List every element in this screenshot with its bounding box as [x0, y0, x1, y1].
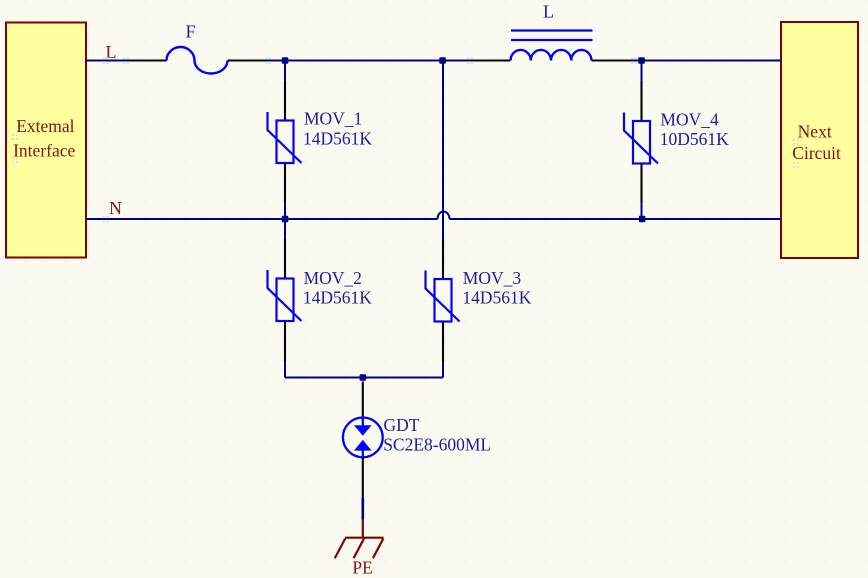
wire L rail node B to inductor pin	[443, 60, 471, 62]
junction node B	[439, 57, 446, 64]
svg-text:MOV_1: MOV_1	[304, 109, 362, 129]
wire stub MOV_4 bottom pin to N rail	[641, 203, 643, 220]
varistor MOV_3	[426, 240, 532, 362]
varistor MOV_1	[268, 81, 373, 203]
svg-text:MOV_2: MOV_2	[304, 268, 362, 288]
gas discharge tube GDT	[343, 382, 491, 498]
power port PE ground	[335, 520, 384, 578]
junction node A	[282, 57, 289, 64]
svg-text:10D561K: 10D561K	[660, 129, 729, 149]
varistor MOV_2	[268, 239, 373, 362]
fuse F	[126, 21, 268, 73]
wire bottom rail MOV_2 to MOV_3	[285, 377, 443, 379]
svg-text:L: L	[543, 1, 554, 21]
svg-text:Circuit: Circuit	[792, 143, 841, 163]
svg-text:14D561K: 14D561K	[462, 288, 531, 308]
wire MOV_3 bottom pin to bottom rail	[442, 362, 444, 378]
wire L rail node A to node B	[285, 60, 443, 62]
svg-text:MOV_3: MOV_3	[463, 268, 522, 288]
wire N rail from Extemal Interface to hop	[86, 218, 438, 220]
wire GDT bottom pin to PE port	[361, 498, 364, 520]
svg-text:MOV_4: MOV_4	[660, 109, 719, 129]
svg-text:F: F	[186, 21, 196, 41]
svg-text:L: L	[106, 42, 117, 62]
svg-text:14D561K: 14D561K	[303, 128, 372, 148]
svg-text:GDT: GDT	[384, 415, 420, 435]
wire stub MOV_1 bottom pin to N rail	[284, 203, 286, 220]
svg-text:Extemal: Extemal	[16, 116, 74, 136]
wire stub N node to MOV_2 top pin	[284, 219, 286, 239]
junction node C	[638, 57, 645, 64]
svg-text:SC2E8-600ML: SC2E8-600ML	[383, 435, 491, 455]
wire N rail hop to Next Circuit	[450, 218, 782, 220]
inductor L	[471, 1, 632, 60]
wire endpoint marks	[103, 57, 637, 222]
wire MOV_2 bottom pin to bottom rail	[284, 361, 286, 378]
wire node B down through hop to MOV_3 pin	[442, 61, 444, 240]
wire L rail from Extemal Interface to fuse pin	[86, 60, 127, 62]
wire stub node C to MOV_4 top pin	[641, 61, 643, 82]
svg-text:N: N	[109, 198, 122, 218]
sheet symbol: Next Circuit box	[781, 22, 858, 258]
wire hop over vertical at node B column	[438, 212, 450, 220]
svg-text:14D561K: 14D561K	[303, 288, 372, 308]
wire L rail fuse to node A	[268, 60, 286, 62]
svg-text:PE: PE	[352, 558, 372, 578]
sheet symbol: Extemal Interface box	[6, 23, 86, 258]
varistor MOV_4	[624, 81, 729, 203]
wire L rail inductor to node C	[632, 60, 642, 62]
junction N at MOV_4	[639, 216, 646, 223]
wire L rail node C to Next Circuit	[642, 60, 782, 62]
junction N at MOV_2	[282, 216, 289, 223]
svg-text:Interface: Interface	[13, 141, 75, 161]
junction bottom rail at GDT	[360, 374, 367, 381]
svg-text:Next: Next	[798, 122, 832, 142]
wire stub node A to MOV_1 top pin	[284, 61, 286, 82]
